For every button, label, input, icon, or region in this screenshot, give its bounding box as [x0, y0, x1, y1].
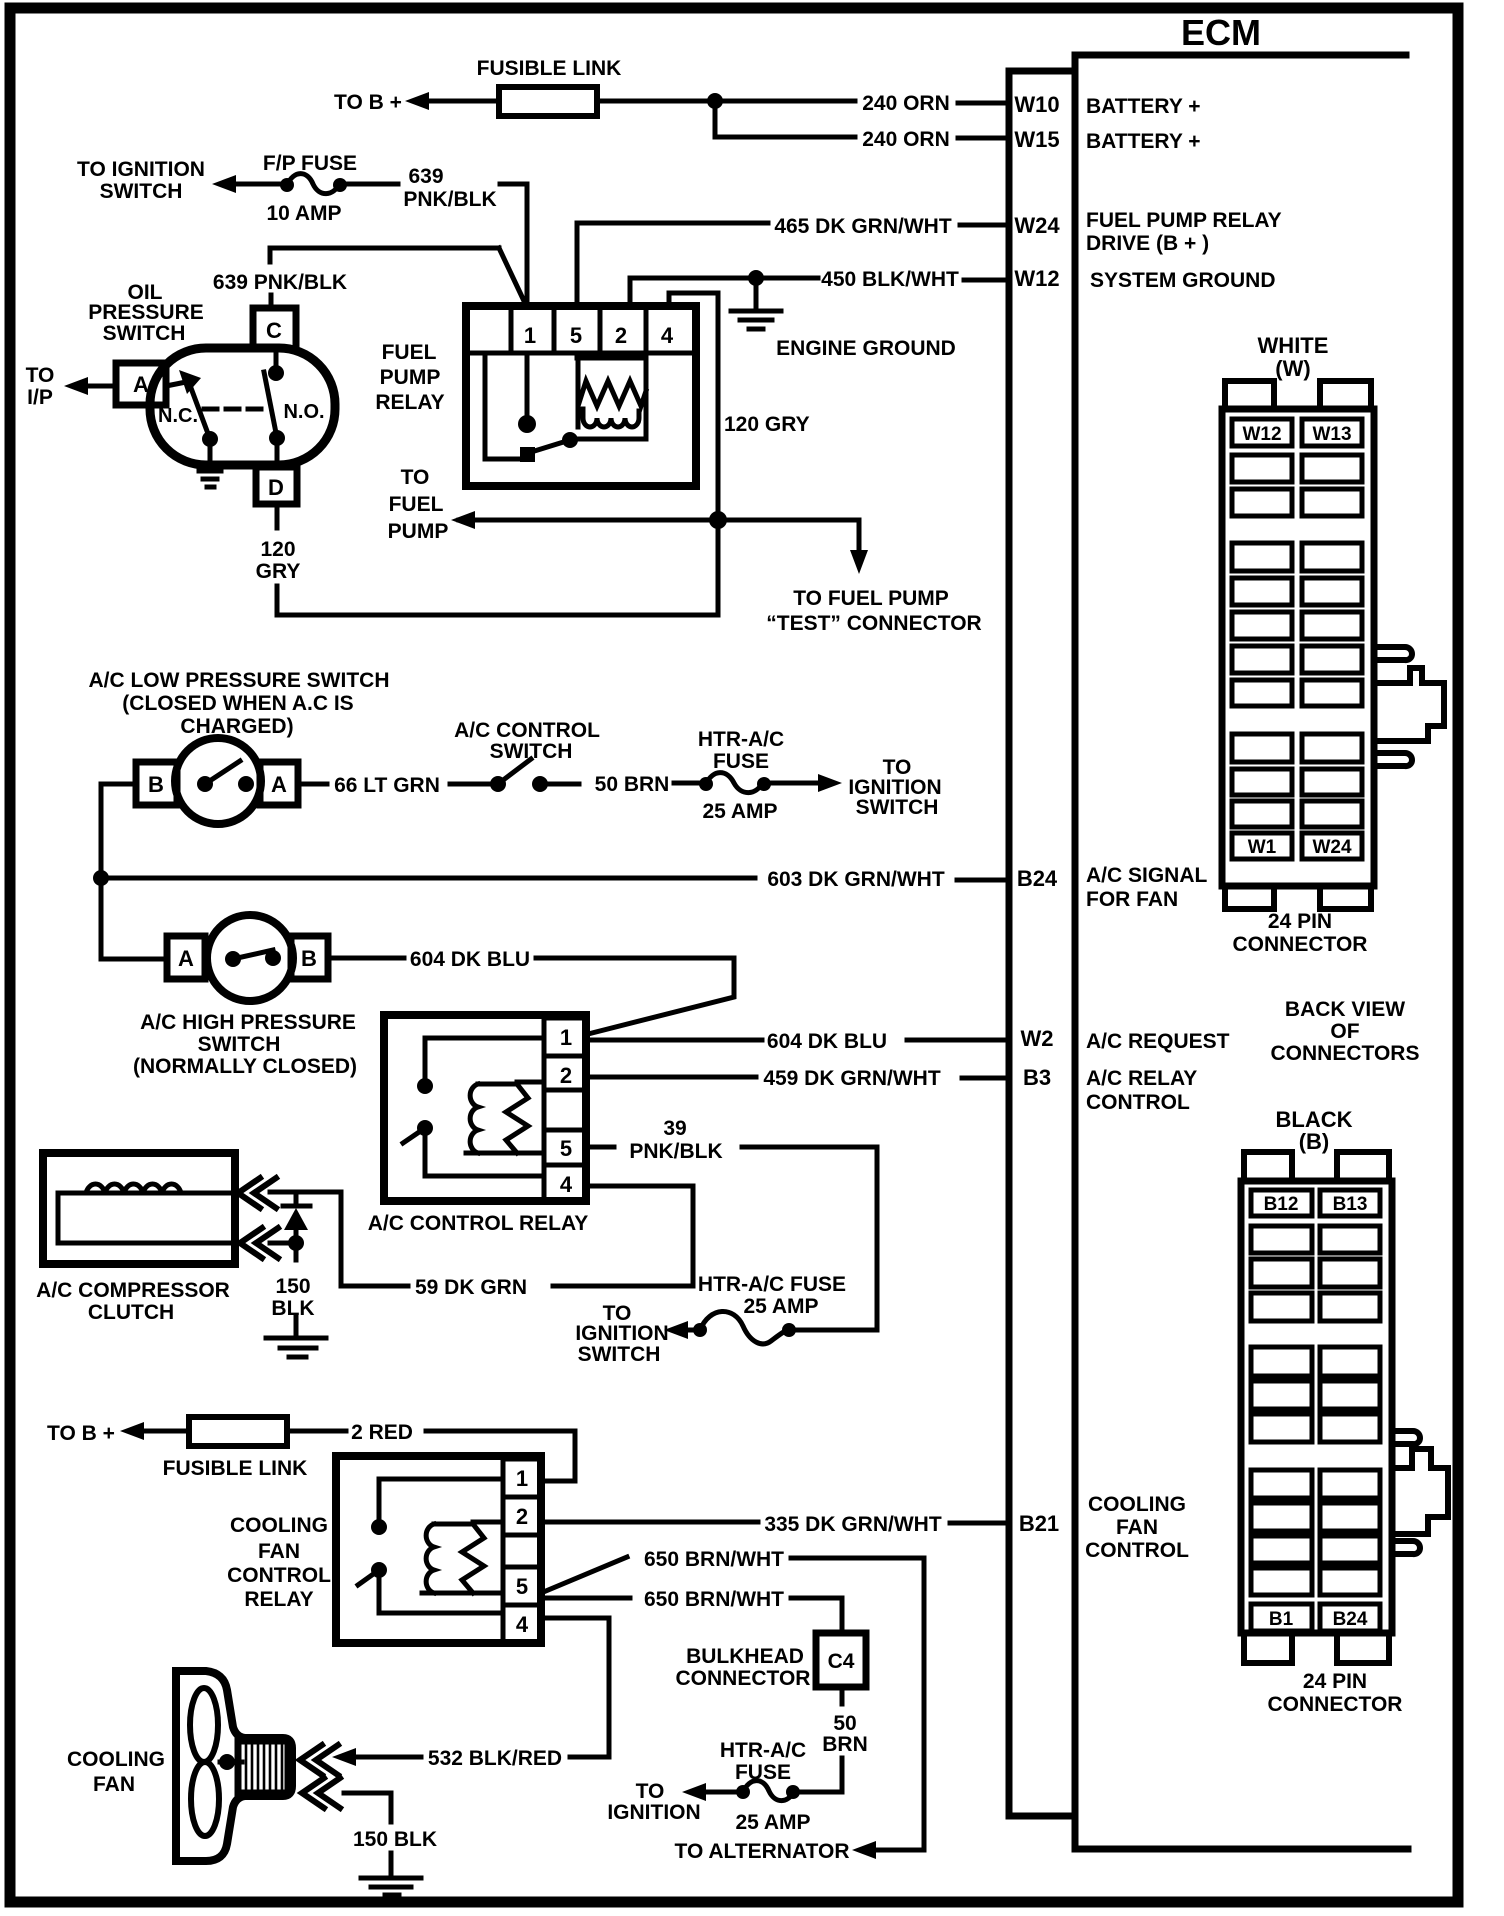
svg-text:CONNECTOR: CONNECTOR [1233, 933, 1368, 956]
wire 120 GRY (D to fuel pump node) [275, 504, 280, 528]
svg-text:FAN: FAN [1116, 1516, 1158, 1539]
cooling fan shroud outline [176, 1671, 292, 1861]
wire 59 DK GRN (pin 4 to compressor clutch) [553, 1186, 693, 1286]
svg-text:FAN: FAN [93, 1773, 135, 1796]
svg-text:SWITCH: SWITCH [578, 1343, 661, 1366]
svg-text:4: 4 [560, 1172, 573, 1197]
svg-text:B1: B1 [1269, 1609, 1294, 1630]
terminal C box [253, 308, 296, 349]
svg-text:IGNITION: IGNITION [575, 1322, 668, 1345]
svg-text:COOLING: COOLING [67, 1748, 165, 1771]
svg-text:BULKHEAD: BULKHEAD [686, 1645, 804, 1668]
svg-text:FUEL: FUEL [389, 493, 444, 516]
svg-text:24 PIN: 24 PIN [1303, 1670, 1367, 1693]
svg-text:TO FUEL PUMP: TO FUEL PUMP [793, 587, 949, 610]
svg-text:PRESSURE: PRESSURE [88, 301, 204, 324]
svg-text:DRIVE (B + ): DRIVE (B + ) [1086, 232, 1209, 255]
wire 639 PNK/BLK (fuse to relay pin 1) [346, 182, 398, 187]
svg-text:50: 50 [833, 1712, 856, 1735]
svg-text:W24: W24 [1014, 213, 1060, 238]
svg-text:RELAY: RELAY [375, 391, 444, 414]
svg-text:240 ORN: 240 ORN [862, 92, 950, 115]
svg-text:2 RED: 2 RED [351, 1421, 413, 1444]
A/C control switch [490, 776, 506, 792]
svg-text:5: 5 [516, 1574, 528, 1599]
fuel pump relay pin row [469, 306, 693, 353]
terminal A box (high pressure) [167, 936, 205, 979]
svg-text:1: 1 [516, 1466, 528, 1491]
arrow to fuel pump [459, 518, 714, 523]
svg-text:639: 639 [408, 165, 443, 188]
A/C high pressure switch body [207, 915, 293, 1001]
svg-text:39: 39 [663, 1117, 686, 1140]
wire 650 BRN/WHT (to bulkhead C4) [541, 1596, 630, 1601]
black connector cell B1 [1251, 1604, 1312, 1631]
svg-text:TO: TO [26, 364, 55, 387]
svg-text:W1: W1 [1248, 837, 1277, 858]
svg-text:BATTERY +: BATTERY + [1086, 130, 1201, 153]
svg-text:A/C CONTROL: A/C CONTROL [454, 719, 600, 742]
wire 465 DK GRN/WHT (pin 5 to W24) [577, 223, 768, 306]
oil pressure switch body [150, 348, 335, 465]
svg-text:25 AMP: 25 AMP [735, 1811, 810, 1834]
arrow to B+ (bottom) [120, 1422, 144, 1440]
svg-text:FUEL PUMP RELAY: FUEL PUMP RELAY [1086, 209, 1282, 232]
fuel pump relay box [466, 306, 696, 486]
arrow to ignition switch (A/C relay feed) [674, 1328, 694, 1333]
svg-text:2: 2 [560, 1063, 572, 1088]
svg-text:FUSIBLE LINK: FUSIBLE LINK [477, 57, 622, 80]
arrow to B+ (top) [405, 92, 429, 110]
wire 66 LT GRN [298, 782, 327, 787]
svg-text:BACK VIEW: BACK VIEW [1285, 998, 1405, 1021]
relay coil (A/C relay) [466, 1082, 544, 1153]
wire 603 DK GRN/WHT (to B24) [101, 876, 755, 881]
fan motor connector chevrons (upper) [300, 1745, 338, 1775]
wire 240 ORN to W10 [715, 99, 855, 104]
svg-text:B: B [148, 772, 164, 797]
svg-text:N.C.: N.C. [158, 405, 198, 427]
svg-text:1: 1 [524, 323, 536, 348]
white connector cell W24 [1302, 833, 1362, 859]
svg-text:25 AMP: 25 AMP [702, 800, 777, 823]
svg-text:ECM: ECM [1181, 12, 1261, 53]
svg-text:B21: B21 [1019, 1511, 1059, 1536]
svg-text:A: A [178, 946, 194, 971]
white connector cell W12 [1232, 419, 1292, 446]
svg-text:BRN: BRN [822, 1733, 868, 1756]
svg-text:CHARGED): CHARGED) [180, 715, 293, 738]
relay coil (fan relay) [422, 1522, 503, 1593]
wire internal lower contact to pin 4 (A/C relay) [425, 1134, 544, 1176]
A/C control relay pin column [544, 1018, 586, 1201]
svg-text:25 AMP: 25 AMP [743, 1295, 818, 1318]
wire N.O. to D [275, 444, 280, 467]
svg-text:150: 150 [275, 1275, 310, 1298]
svg-text:TO: TO [401, 466, 430, 489]
svg-text:B24: B24 [1333, 1609, 1368, 1630]
svg-text:603 DK GRN/WHT: 603 DK GRN/WHT [767, 868, 945, 891]
svg-text:WHITE: WHITE [1258, 333, 1329, 358]
A/C control relay box [384, 1015, 586, 1201]
svg-text:465 DK GRN/WHT: 465 DK GRN/WHT [774, 215, 952, 238]
wire internal lower contact to pin 4 (fan relay) [379, 1576, 503, 1613]
arrow to I/P [64, 377, 88, 395]
diode (compressor clutch) [283, 1192, 310, 1206]
svg-text:A: A [133, 372, 149, 397]
cooling fan relay pin column [503, 1459, 541, 1643]
svg-text:W10: W10 [1014, 92, 1059, 117]
wire 150 BLK (fan ground) [344, 1793, 391, 1876]
svg-text:639 PNK/BLK: 639 PNK/BLK [213, 271, 347, 294]
ground (oil pressure switch) [199, 471, 221, 487]
svg-text:TO ALTERNATOR: TO ALTERNATOR [675, 1840, 850, 1863]
junction fuel pump node [709, 511, 727, 529]
wire 39 PNK/BLK (pin 5 to HTR fuse) [586, 1145, 614, 1150]
svg-text:604 DK BLU: 604 DK BLU [767, 1030, 887, 1053]
wire 335 DK GRN/WHT (pin 2 to B21) [541, 1520, 758, 1525]
high pressure switch contacts [225, 951, 241, 967]
svg-text:532 BLK/RED: 532 BLK/RED [428, 1747, 562, 1770]
relay switch blade (fuel pump relay) [562, 432, 578, 448]
terminal B box (low pressure) [136, 762, 177, 805]
svg-text:A/C LOW PRESSURE SWITCH: A/C LOW PRESSURE SWITCH [88, 669, 389, 692]
svg-text:“TEST” CONNECTOR: “TEST” CONNECTOR [766, 612, 981, 635]
ground (cooling fan) [361, 1878, 421, 1895]
svg-text:B13: B13 [1333, 1194, 1368, 1215]
svg-text:RELAY: RELAY [244, 1588, 313, 1611]
wire pin 1 internal [525, 353, 530, 420]
arrow to ignition switch (A/C control) [770, 781, 820, 786]
svg-text:5: 5 [570, 323, 582, 348]
wire to fuel pump test connector [718, 520, 859, 556]
svg-text:A/C SIGNAL: A/C SIGNAL [1086, 864, 1208, 887]
fan blade (lower) [191, 1762, 219, 1836]
svg-text:B24: B24 [1017, 866, 1058, 891]
svg-text:SWITCH: SWITCH [856, 796, 939, 819]
bulkhead connector C4 box [816, 1633, 866, 1687]
svg-text:SYSTEM GROUND: SYSTEM GROUND [1090, 269, 1276, 292]
svg-text:PUMP: PUMP [388, 520, 449, 543]
svg-text:C4: C4 [828, 1650, 855, 1673]
svg-text:A/C REQUEST: A/C REQUEST [1086, 1030, 1230, 1053]
wire junction to high pressure switch A [101, 878, 167, 959]
svg-text:1: 1 [560, 1025, 572, 1050]
svg-text:A/C COMPRESSOR: A/C COMPRESSOR [36, 1279, 230, 1302]
svg-text:CONNECTOR: CONNECTOR [1268, 1693, 1403, 1716]
ECM connector pin strip [1009, 71, 1075, 1816]
wire B to A/C signal junction [101, 784, 136, 872]
svg-text:GRY: GRY [256, 560, 301, 583]
svg-text:240 ORN: 240 ORN [862, 128, 950, 151]
svg-text:2: 2 [516, 1504, 528, 1529]
ECM module box [1075, 55, 1408, 1849]
terminal B box (high pressure) [291, 936, 328, 979]
svg-text:459 DK GRN/WHT: 459 DK GRN/WHT [763, 1067, 941, 1090]
black connector cell B12 [1251, 1190, 1312, 1216]
svg-text:FUEL: FUEL [382, 341, 437, 364]
svg-text:10 AMP: 10 AMP [266, 202, 341, 225]
junction engine ground [748, 270, 764, 286]
svg-text:CONNECTOR: CONNECTOR [676, 1667, 811, 1690]
white connector bottom tabs [1225, 886, 1371, 909]
fusible link (bottom) [189, 1417, 287, 1446]
fan blade (upper) [190, 1688, 218, 1762]
svg-text:B3: B3 [1023, 1065, 1051, 1090]
junction diode ground node [288, 1235, 304, 1251]
svg-text:FUSIBLE LINK: FUSIBLE LINK [163, 1457, 308, 1480]
black connector keying notches [1395, 1431, 1420, 1444]
C contact dot [268, 365, 284, 381]
svg-text:FAN: FAN [258, 1540, 300, 1563]
wire 50 BRN (C4 to fuse) [840, 1687, 845, 1704]
svg-text:650 BRN/WHT: 650 BRN/WHT [644, 1588, 784, 1611]
svg-text:2: 2 [615, 323, 627, 348]
svg-text:BLK: BLK [271, 1297, 314, 1320]
svg-text:5: 5 [560, 1136, 572, 1161]
svg-text:W24: W24 [1312, 837, 1352, 858]
fan motor connector chevrons (lower) [302, 1778, 340, 1808]
svg-text:450 BLK/WHT: 450 BLK/WHT [821, 268, 959, 291]
wire 2 RED (to relay pin 1) [287, 1429, 346, 1434]
wire fusible link to junction [597, 99, 715, 104]
white connector top tabs [1225, 381, 1371, 409]
wire N.C. to ground [208, 445, 213, 471]
svg-text:650 BRN/WHT: 650 BRN/WHT [644, 1548, 784, 1571]
svg-text:A: A [271, 772, 287, 797]
svg-text:COOLING: COOLING [230, 1514, 328, 1537]
white 24 pin connector body [1222, 409, 1374, 886]
svg-text:CONNECTORS: CONNECTORS [1271, 1042, 1420, 1065]
svg-text:120: 120 [260, 538, 295, 561]
svg-text:FUSE: FUSE [713, 750, 769, 773]
wire 604 DK BLU (pin 1 to W2) [586, 1038, 762, 1043]
arrow to alternator [852, 1841, 876, 1859]
svg-text:HTR-A/C: HTR-A/C [720, 1739, 806, 1762]
svg-text:(W): (W) [1275, 356, 1310, 381]
svg-text:335 DK GRN/WHT: 335 DK GRN/WHT [764, 1513, 942, 1536]
svg-text:BATTERY +: BATTERY + [1086, 95, 1201, 118]
svg-text:B12: B12 [1264, 1194, 1299, 1215]
A/C relay internal contacts [417, 1078, 433, 1094]
svg-text:(NORMALLY CLOSED): (NORMALLY CLOSED) [133, 1055, 357, 1078]
wire 450 BLK/WHT (pin 2 to W12) [630, 278, 818, 306]
wire 240 ORN to W15 [715, 101, 855, 137]
svg-text:D: D [268, 475, 284, 500]
svg-text:120 GRY: 120 GRY [724, 413, 810, 436]
svg-text:(CLOSED WHEN A.C IS: (CLOSED WHEN A.C IS [122, 692, 353, 715]
N.C. contact blade [179, 370, 201, 394]
svg-text:W15: W15 [1014, 127, 1059, 152]
svg-text:FOR FAN: FOR FAN [1086, 888, 1178, 911]
svg-text:A/C RELAY: A/C RELAY [1086, 1067, 1197, 1090]
svg-text:CONTROL: CONTROL [227, 1564, 331, 1587]
wire 120 GRY (relay pin 4 to node) [669, 293, 718, 516]
ground (engine) [731, 282, 781, 329]
fan relay internal contacts [371, 1519, 387, 1535]
wire 639 PNK/BLK branch to oil pressure switch C [270, 248, 524, 309]
low pressure switch contacts [197, 776, 213, 792]
svg-text:TO: TO [636, 1780, 665, 1803]
svg-text:OF: OF [1330, 1020, 1359, 1043]
wire internal upper contact to pin 1 (A/C relay) [425, 1038, 544, 1080]
svg-text:C: C [266, 318, 282, 343]
wire C into body [274, 349, 279, 367]
black connector top tabs [1244, 1152, 1389, 1181]
black connector blank cells [1251, 1226, 1380, 1595]
svg-text:F/P FUSE: F/P FUSE [263, 152, 357, 175]
wire 150 BLK (compressor ground) [294, 1243, 299, 1336]
svg-text:A/C HIGH PRESSURE: A/C HIGH PRESSURE [140, 1011, 356, 1034]
svg-text:(B): (B) [1299, 1129, 1330, 1154]
wire internal upper contact to pin 1 (fan relay) [379, 1479, 503, 1521]
svg-text:W13: W13 [1312, 424, 1351, 445]
wire 459 DK GRN/WHT (pin 2 to B3) [586, 1075, 756, 1080]
wire 604 DK BLU (B to relay pin 1) [328, 956, 404, 961]
N.O. blade [264, 372, 277, 438]
svg-text:TO B +: TO B + [47, 1422, 115, 1445]
cooling fan control relay box [336, 1456, 541, 1643]
compressor clutch coil [58, 1184, 231, 1243]
svg-text:COOLING: COOLING [1088, 1493, 1186, 1516]
svg-text:24 PIN: 24 PIN [1268, 910, 1332, 933]
white connector cell W13 [1302, 419, 1362, 446]
svg-text:W12: W12 [1242, 424, 1281, 445]
A/C compressor clutch box [43, 1153, 235, 1264]
svg-text:SWITCH: SWITCH [100, 180, 183, 203]
svg-text:W2: W2 [1021, 1026, 1054, 1051]
wire 650 BRN/WHT (to alternator) [541, 1557, 627, 1593]
svg-text:PNK/BLK: PNK/BLK [629, 1140, 722, 1163]
svg-text:CONTROL: CONTROL [1085, 1539, 1189, 1562]
white connector cell W1 [1232, 833, 1292, 859]
compressor clutch connector chevrons (lower) [240, 1228, 278, 1258]
svg-text:IGNITION: IGNITION [607, 1801, 700, 1824]
svg-text:TO IGNITION: TO IGNITION [77, 158, 205, 181]
svg-text:W12: W12 [1014, 266, 1059, 291]
relay coil (fuel pump relay) [577, 353, 646, 439]
svg-text:CONTROL: CONTROL [1086, 1091, 1190, 1114]
wire lower chevron to diode node [270, 1241, 296, 1246]
svg-text:604 DK BLU: 604 DK BLU [410, 948, 530, 971]
terminal A box (low pressure) [260, 762, 298, 805]
A/C low pressure switch body [175, 738, 261, 824]
wire to fusible link [425, 99, 499, 104]
svg-text:CLUTCH: CLUTCH [88, 1301, 174, 1324]
svg-text:N.O.: N.O. [283, 401, 324, 423]
black 24 pin connector body [1241, 1181, 1392, 1633]
terminal D box [256, 467, 297, 504]
black connector bottom tabs [1244, 1633, 1389, 1663]
svg-text:HTR-A/C: HTR-A/C [698, 728, 784, 751]
svg-text:SWITCH: SWITCH [198, 1033, 281, 1056]
svg-text:PUMP: PUMP [380, 366, 441, 389]
svg-text:66 LT GRN: 66 LT GRN [334, 774, 440, 797]
white connector blank cells [1232, 455, 1362, 827]
svg-text:150 BLK: 150 BLK [353, 1828, 437, 1851]
svg-text:A/C CONTROL RELAY: A/C CONTROL RELAY [368, 1212, 589, 1235]
fusible link (top) [499, 87, 597, 116]
ground (compressor clutch) [266, 1338, 326, 1357]
arrow to ignition switch (F/P) [212, 175, 236, 193]
fan hub and shaft [219, 1754, 235, 1770]
black connector cell B13 [1320, 1190, 1380, 1216]
svg-text:I/P: I/P [27, 386, 53, 409]
svg-text:59 DK GRN: 59 DK GRN [415, 1276, 527, 1299]
svg-text:B: B [301, 946, 317, 971]
svg-text:ENGINE GROUND: ENGINE GROUND [776, 337, 956, 360]
dashed link [204, 407, 266, 412]
svg-text:PNK/BLK: PNK/BLK [403, 188, 496, 211]
white connector keying notches [1377, 647, 1412, 660]
svg-text:SWITCH: SWITCH [103, 322, 186, 345]
arrow to ignition (fan feed) [706, 1790, 737, 1795]
svg-text:TO B +: TO B + [334, 91, 402, 114]
wire 532 BLK/RED (pin 4 to fan motor) [541, 1618, 609, 1757]
black connector cell B24 [1320, 1604, 1380, 1631]
svg-text:4: 4 [661, 323, 674, 348]
terminal A box (oil pressure) [116, 363, 166, 405]
junction A/C signal node [93, 870, 109, 886]
svg-text:4: 4 [516, 1612, 529, 1637]
svg-text:50 BRN: 50 BRN [595, 773, 670, 796]
wire internal to contact (fuel pump relay) [485, 353, 518, 459]
compressor clutch connector chevrons (upper) [238, 1178, 276, 1208]
svg-text:HTR-A/C FUSE: HTR-A/C FUSE [698, 1273, 846, 1296]
junction battery feed [707, 93, 723, 109]
fan motor box [238, 1741, 288, 1793]
